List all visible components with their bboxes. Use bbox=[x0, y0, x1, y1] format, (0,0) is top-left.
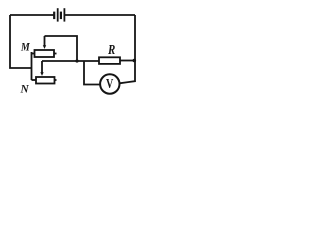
svg-text:V: V bbox=[106, 75, 113, 91]
svg-text:R: R bbox=[107, 42, 115, 58]
svg-text:M: M bbox=[20, 40, 31, 53]
svg-text:N: N bbox=[20, 82, 30, 95]
